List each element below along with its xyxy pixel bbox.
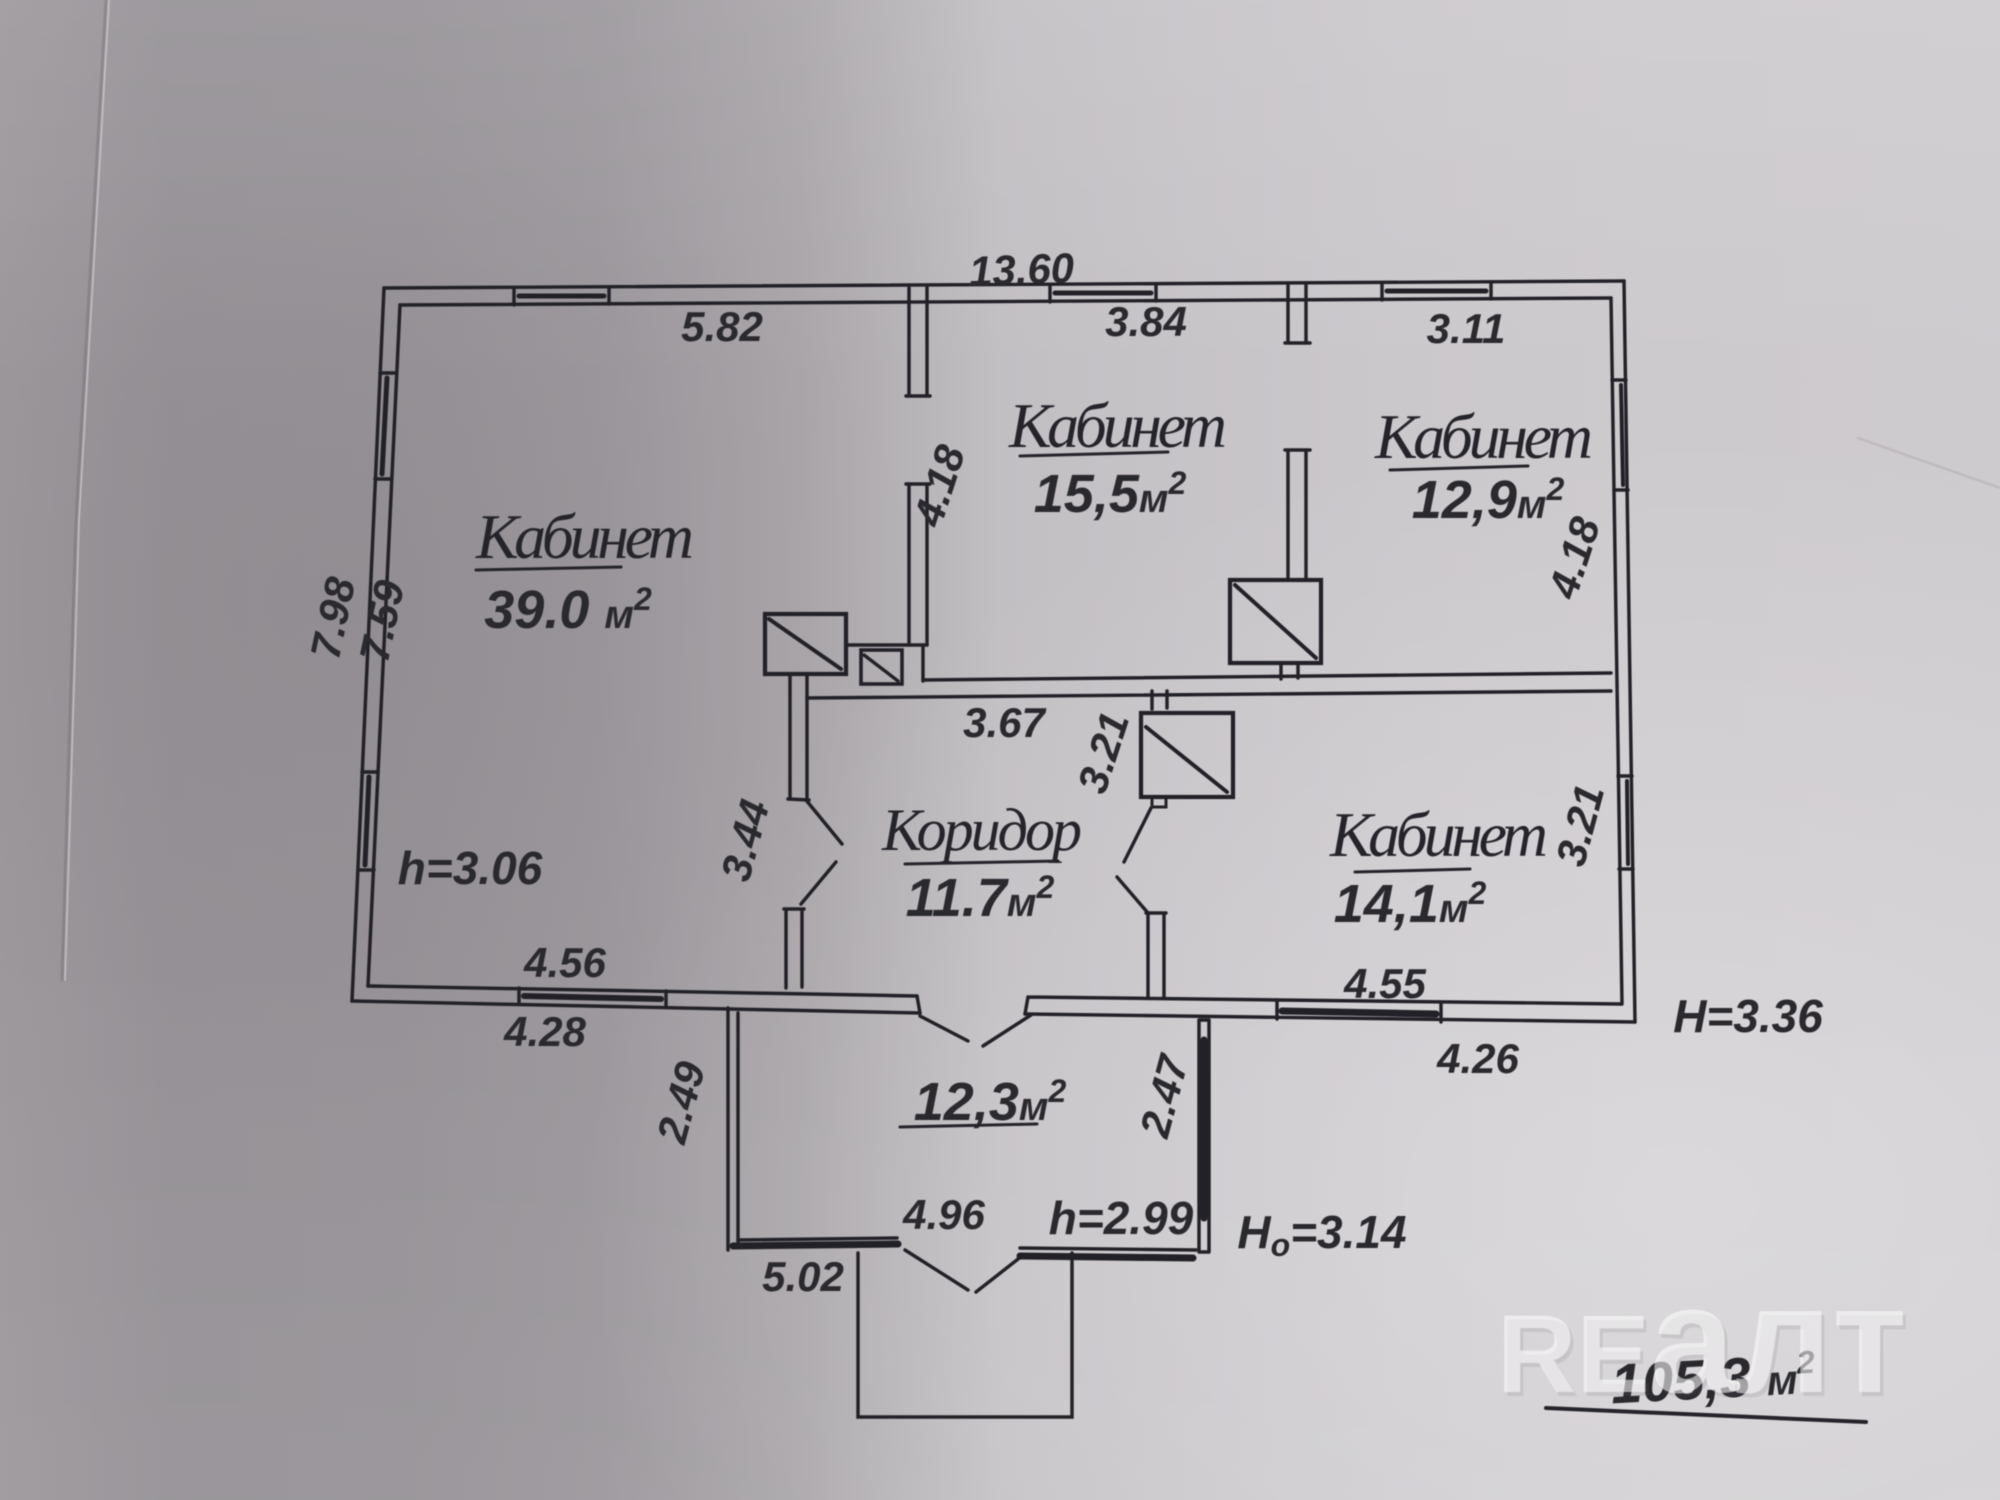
wall A stub upper (906, 287, 930, 396)
wall left outer (352, 288, 384, 1001)
svg-text:12,9м2: 12,9м2 (1412, 470, 1565, 530)
svg-text:5.02: 5.02 (762, 1253, 844, 1300)
label 12.3 porch (900, 1072, 1066, 1132)
window W3 top (1382, 282, 1491, 300)
door jamb center-left (917, 996, 920, 1013)
porch wall bottom-right (1020, 1248, 1196, 1250)
window W6 bottom (519, 988, 666, 1007)
svg-text:3.21: 3.21 (1068, 706, 1138, 798)
wall top inner (400, 298, 1611, 305)
wall corridor-right lower (1146, 913, 1166, 998)
svg-text:Кабинет: Кабинет (1008, 390, 1227, 461)
svg-text:4.96: 4.96 (902, 1191, 985, 1238)
svg-text:2.49: 2.49 (647, 1056, 714, 1149)
wall corridor-left lower (784, 909, 804, 988)
stove S4 (1230, 580, 1321, 663)
svg-text:12,3м2: 12,3м2 (914, 1072, 1067, 1132)
window W5 left (358, 772, 378, 870)
chimney ticks (1152, 691, 1167, 709)
window W2 top (1050, 284, 1156, 302)
window W7 bottom (1277, 1000, 1441, 1022)
wall right outer (1624, 281, 1635, 1022)
svg-text:3.67: 3.67 (963, 699, 1046, 746)
svg-text:4.26: 4.26 (1436, 1035, 1519, 1082)
wall corridor-left upper (788, 674, 809, 800)
label 105.3 total (1546, 1342, 1866, 1422)
svg-text:3.84: 3.84 (1105, 298, 1187, 345)
svg-text:3.11: 3.11 (1427, 305, 1506, 352)
svg-text:4.56: 4.56 (523, 939, 606, 986)
porch wall left (728, 1008, 738, 1250)
svg-text:4.18: 4.18 (904, 439, 974, 533)
svg-text:REалт: REалт (1497, 1254, 1907, 1425)
door leaf entrance left (920, 1016, 968, 1041)
porch door leaf right (976, 1256, 1022, 1292)
svg-text:3.21: 3.21 (1547, 780, 1614, 871)
paper crease left (62, 0, 106, 980)
svg-text:4.28: 4.28 (503, 1008, 586, 1055)
door leaf corridor-left lower (801, 862, 836, 904)
wall bottom-left outer (352, 1001, 920, 1013)
porch wall bottom-left (738, 1238, 897, 1240)
wall right inner (1611, 298, 1622, 1004)
svg-text:h=2.99: h=2.99 (1049, 1192, 1194, 1244)
svg-text:2.47: 2.47 (1130, 1049, 1197, 1143)
svg-text:4.18: 4.18 (1539, 511, 1609, 605)
wall A lower (906, 484, 930, 645)
wall B stub upper (1285, 284, 1310, 343)
svg-text:Кабинет: Кабинет (1374, 401, 1593, 472)
steps (858, 1253, 1072, 1417)
svg-text:4.55: 4.55 (1343, 960, 1426, 1007)
svg-text:39.0 м2: 39.0 м2 (484, 580, 652, 640)
svg-text:Но=3.14: Но=3.14 (1237, 1206, 1406, 1263)
door leaf corridor-right lower (1117, 877, 1148, 913)
label Кабинет 15.5 (1008, 390, 1227, 524)
wire (352, 281, 1635, 1417)
paper crease right (1858, 438, 2000, 488)
svg-text:13.60: 13.60 (968, 244, 1075, 295)
label Кабинет 39.0 (475, 501, 694, 640)
svg-text:15,5м2: 15,5м2 (1034, 464, 1187, 524)
svg-text:h=3.06: h=3.06 (398, 842, 543, 894)
stove S1 (765, 614, 846, 674)
svg-text:3.44: 3.44 (712, 795, 779, 886)
svg-text:H=3.36: H=3.36 (1673, 990, 1823, 1042)
wall bottom-right inner (1025, 997, 1621, 1014)
window W1 top (514, 287, 609, 305)
door leaf corridor-left upper (806, 800, 842, 844)
stove S3 foot (1152, 797, 1166, 807)
wall left inner (368, 305, 400, 986)
door leaf entrance right (983, 1015, 1031, 1046)
door leaf corridor-right upper (1124, 808, 1151, 862)
label Коридор (881, 797, 1082, 928)
svg-text:Кабинет: Кабинет (1329, 799, 1548, 870)
svg-text:Коридор: Коридор (881, 797, 1082, 863)
wall bottom-left inner (368, 986, 917, 996)
window W4 left (375, 373, 396, 479)
wall top outer (384, 281, 1624, 288)
svg-text:Кабинет: Кабинет (475, 501, 694, 572)
wall bottom-right outer (1025, 1014, 1635, 1022)
flue S2 (861, 650, 902, 684)
watermark REalt (1497, 1254, 1910, 1429)
stove S3 (1141, 713, 1233, 797)
label Кабинет 12.9 (1374, 401, 1593, 530)
niche right stub (921, 645, 924, 681)
middle wall top (923, 673, 1611, 680)
stove S4 stub (1281, 663, 1298, 679)
svg-text:14,1м2: 14,1м2 (1334, 874, 1487, 934)
wall B lower (1285, 450, 1310, 580)
porch door leaf left (905, 1250, 968, 1290)
porch wall right (1199, 1020, 1209, 1252)
svg-text:5.82: 5.82 (681, 303, 763, 350)
niche top line (847, 643, 927, 646)
middle wall bottom (807, 691, 1611, 698)
svg-text:11.7м2: 11.7м2 (906, 868, 1055, 928)
window W9 right (1618, 776, 1633, 869)
label Кабинет 14.1 (1329, 799, 1548, 934)
window W8 right (1612, 380, 1628, 490)
